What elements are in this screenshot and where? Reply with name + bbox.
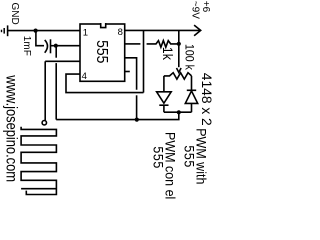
node diodes junction [177,110,181,114]
resistor R1 1k [147,41,179,48]
capacitor C1 straight plate [50,39,52,53]
node output terminal [42,121,46,125]
wire wiper down [178,44,180,68]
wire junction up to rail [178,30,180,43]
diode D1 triangle [157,92,172,103]
wire pot right down [191,76,193,90]
wire pin2 [56,45,80,47]
ground symbol [2,25,8,36]
diode D2 cathode bar [187,89,196,91]
PWM output waveform drawing [21,127,56,195]
wiper arrow [177,68,182,72]
wire pin8 to +V supply arrow [125,29,201,31]
wire D1 to rail [163,105,165,112]
wire +V rail vertical [143,30,145,92]
potentiometer VR1 100k body [164,73,192,79]
diode D2 triangle [185,91,197,104]
capacitor C1 1mF curved plate [45,40,48,53]
svg-text:4: 4 [82,71,87,82]
wire pin4 loop [66,74,144,93]
wire pot left down [163,76,165,92]
svg-text:1mF: 1mF [21,36,32,56]
wire cap node down to bottom rail [55,46,57,58]
svg-text:1: 1 [83,27,88,38]
node R1 junction [177,42,181,46]
svg-text:100 k: 100 k [182,44,195,70]
wire output down [44,61,46,120]
svg-text:555: 555 [93,40,111,63]
svg-text:8: 8 [118,27,123,38]
wire pin5 stub [125,71,130,73]
IC U1 notch [100,23,106,26]
wire pin6 [125,58,137,90]
wire cap to node [51,45,57,47]
wire diode bottom [164,111,192,113]
svg-text:1k: 1k [160,47,176,60]
svg-text:www.josepino.com: www.josepino.com [2,74,19,182]
svg-text:4148 x 2: 4148 x 2 [199,73,214,126]
node cap junction [54,44,58,48]
wire pin7 left [125,43,141,45]
wire GND to pin1 [8,30,80,32]
wire pin3 output [45,60,80,62]
wire D2 to rail [191,103,193,112]
wire junction down to C1 [36,31,44,46]
node pin6 junction [135,118,139,122]
wire pin6 lower [136,95,138,119]
diode D1 cathode bar [159,104,168,106]
wire junction jog down-left [56,112,179,119]
svg-text:GND: GND [9,3,20,25]
IC U1 555 timer body [80,24,125,81]
node junction to C1 [34,29,38,33]
